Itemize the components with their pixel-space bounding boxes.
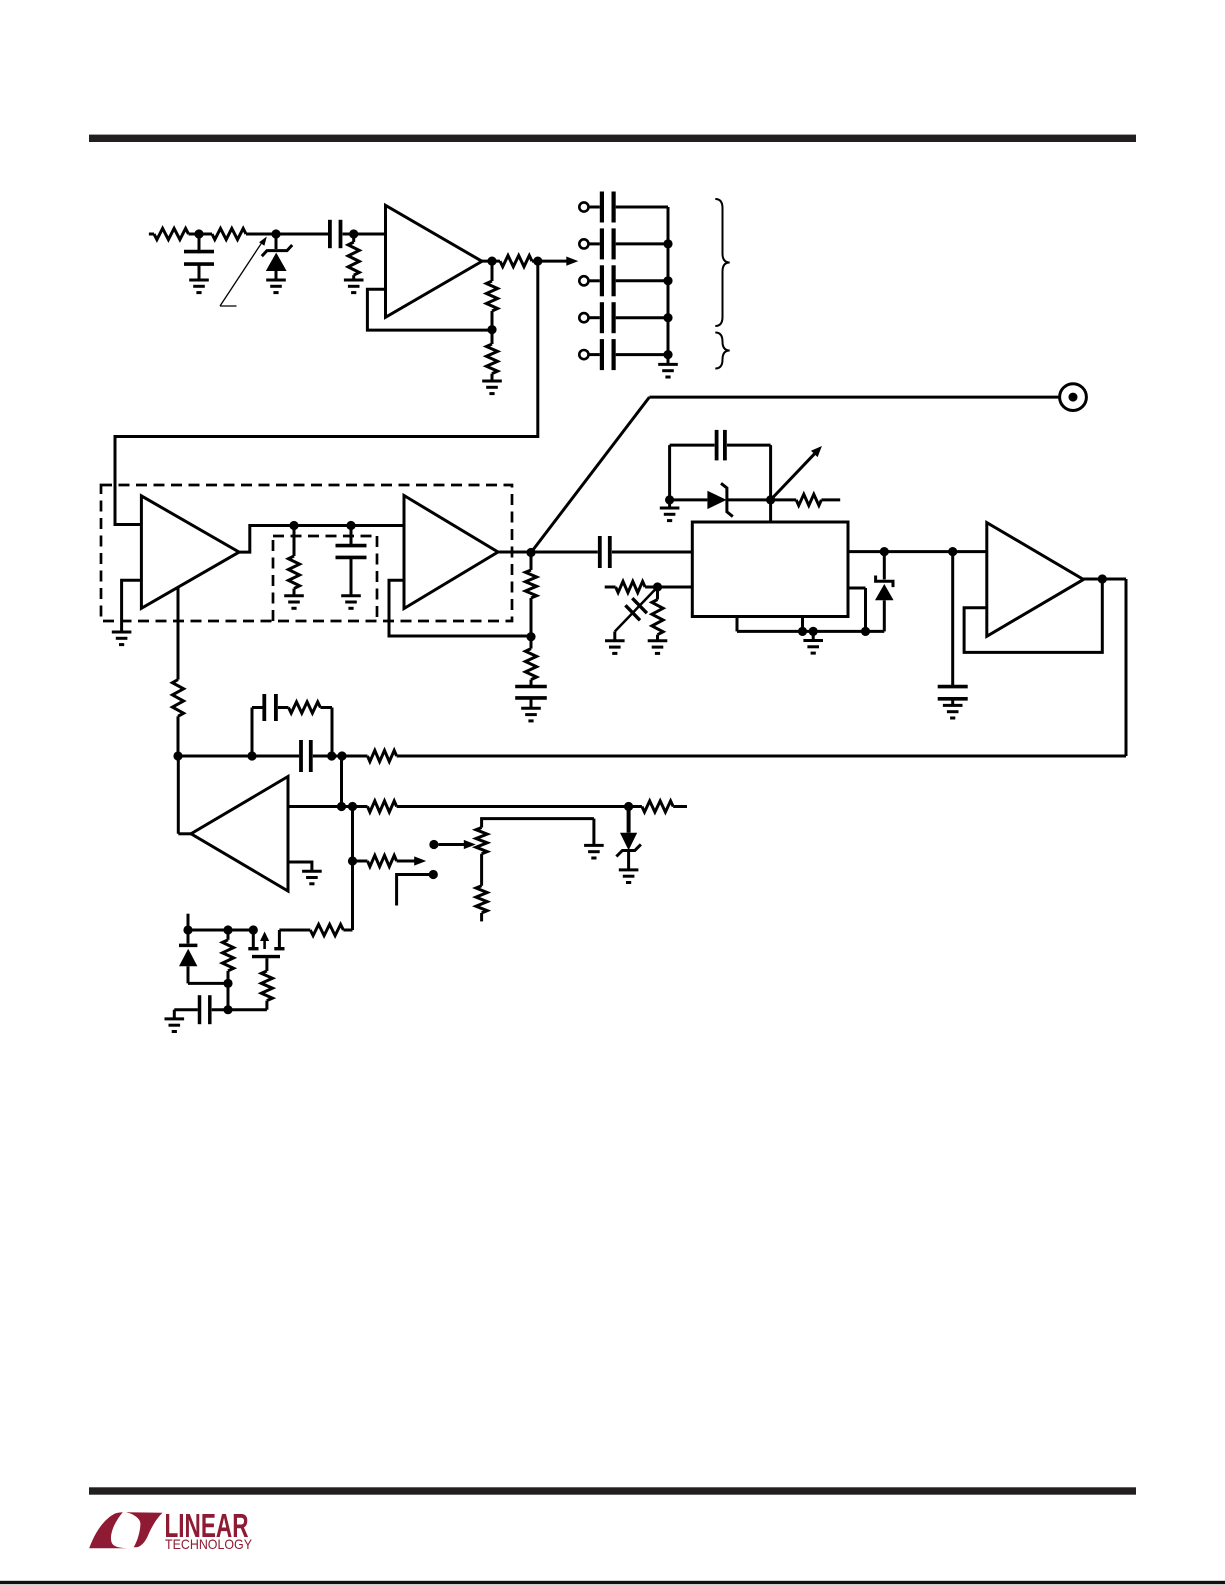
svg-text:TECHNOLOGY: TECHNOLOGY [165, 1536, 253, 1552]
